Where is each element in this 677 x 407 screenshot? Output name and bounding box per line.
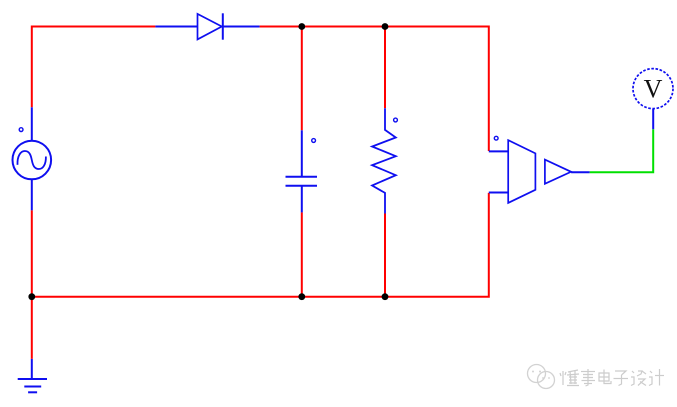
terminal ring of source (19, 128, 23, 132)
事 (581, 369, 595, 386)
buffer U1 (controlled source block) (489, 140, 590, 203)
wire: left vertical red from top-left corner to source top (32, 27, 156, 108)
计 (649, 369, 664, 386)
wire: resistor branch bottom red (384, 214, 386, 297)
wire: source bottom red down to ground stem (31, 210, 33, 359)
watermark text 懂事电子设计 (hand drawn strokes) (560, 369, 664, 386)
node junction dot (bottom left) (28, 293, 35, 300)
node junction dot (top resistor tap) (382, 23, 389, 30)
AC source V1 (13, 107, 52, 210)
svg-text:V: V (644, 75, 663, 104)
resistor R1 (372, 108, 396, 213)
watermark logo (528, 365, 555, 389)
voltmeter U2 (633, 69, 673, 130)
电 (599, 370, 611, 384)
node junction dot (top capacitor tap) (298, 23, 305, 30)
wire: green output wire to voltmeter (590, 129, 654, 172)
terminal ring of buffer (494, 136, 498, 140)
node junction dot (bottom capacitor tap) (298, 293, 305, 300)
wire: resistor branch top red (384, 27, 386, 109)
wire: capacitor branch top red (301, 27, 303, 131)
懂 (560, 370, 579, 386)
wire: bottom horizontal red and right vertical up to buffer bottom input (32, 193, 489, 297)
diode D1 (155, 13, 259, 39)
子 (614, 371, 629, 386)
node junction dot (bottom resistor tap) (382, 293, 389, 300)
wire: top red segment diode to right corner, down to buffer top input (260, 27, 489, 152)
terminal ring of resistor (394, 118, 398, 122)
capacitor C1 (286, 130, 318, 212)
设 (631, 371, 646, 386)
terminal ring of capacitor (312, 139, 316, 143)
ground (18, 359, 47, 392)
wire: capacitor branch bottom red (301, 212, 303, 296)
